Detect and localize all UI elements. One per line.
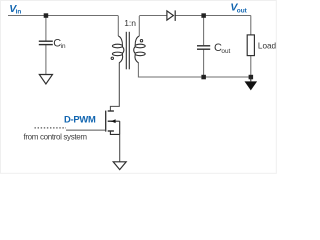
transformer primary polarity dot bbox=[111, 57, 113, 59]
svg-text:out: out bbox=[221, 48, 230, 55]
node Vin label bbox=[9, 3, 21, 16]
transistor Q1 source lead bbox=[110, 131, 119, 134]
transistor Q1 channel dashes bbox=[108, 111, 114, 131]
wire C_in to ground bbox=[45, 45, 47, 75]
wire diode to output corner bbox=[175, 15, 251, 17]
wire gate dotted from control bbox=[35, 127, 67, 129]
transformer T1 secondary winding bbox=[134, 16, 146, 63]
transistor Q1 MOSFET gate bar bbox=[105, 111, 107, 132]
wire gate solid segment bbox=[66, 129, 106, 131]
svg-text:1:n: 1:n bbox=[124, 18, 136, 28]
svg-text:in: in bbox=[16, 8, 22, 15]
load resistor box bbox=[247, 35, 254, 56]
label C_out bbox=[214, 42, 231, 55]
ground source bbox=[113, 162, 126, 170]
wire source to ground bbox=[119, 134, 121, 161]
wire output bottom rail bbox=[138, 63, 250, 78]
diode D1 bbox=[167, 10, 175, 21]
wire C_out branch top bbox=[203, 16, 205, 46]
junction output top node bbox=[201, 13, 206, 17]
transformer T1 primary winding bbox=[112, 16, 124, 63]
transformer secondary polarity dot bbox=[140, 40, 142, 42]
capacitor C_in plates bbox=[39, 41, 53, 44]
wire C_in branch bbox=[45, 16, 47, 42]
capacitor C_out plates bbox=[197, 46, 210, 49]
svg-text:out: out bbox=[237, 7, 248, 14]
svg-text:Load: Load bbox=[258, 42, 277, 51]
wire output corner down to load bbox=[250, 16, 252, 35]
svg-text:in: in bbox=[61, 43, 66, 50]
node Vout label bbox=[230, 2, 247, 15]
wire input top rail bbox=[8, 15, 118, 17]
wire load bottom bbox=[250, 56, 252, 77]
junction input node bbox=[44, 13, 49, 17]
ground output (filled triangle) bbox=[245, 77, 258, 90]
svg-text:D-PWM: D-PWM bbox=[64, 114, 96, 125]
junction load bottom bbox=[249, 75, 254, 80]
svg-text:from control system: from control system bbox=[24, 132, 88, 141]
ground input bbox=[39, 75, 52, 85]
wire drain (transformer primary to Q1) bbox=[110, 63, 119, 111]
label C_in bbox=[53, 37, 66, 50]
wire C_out bottom bbox=[203, 49, 205, 77]
wire secondary top rail to diode bbox=[139, 15, 167, 17]
junction C_out bottom bbox=[201, 75, 206, 80]
transistor Q1 body lead with arrow bbox=[111, 119, 120, 134]
transformer core bbox=[126, 32, 129, 70]
